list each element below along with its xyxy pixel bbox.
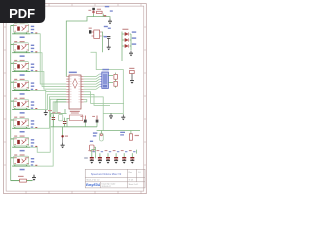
- ground: [107, 38, 111, 50]
- capacitor C4 electrolytic: [92, 116, 98, 127]
- capacitor C10 decoupling: [129, 150, 136, 164]
- wire : xtal caps: [51, 99, 67, 117]
- value text: [52, 112, 55, 113]
- diode D3: [125, 38, 128, 41]
- relay module K2: [11, 41, 38, 57]
- wire : rail bottom run: [11, 180, 20, 182]
- wire: [27, 180, 33, 182]
- capacitor C1: [52, 115, 55, 127]
- transistor Q1: [89, 28, 92, 34]
- ground: [129, 51, 133, 57]
- ground: [32, 175, 36, 181]
- resistor R13: [114, 80, 117, 88]
- pin text: [84, 121, 87, 122]
- wire: [67, 119, 70, 127]
- capacitor C2: [63, 118, 66, 127]
- wire: [102, 32, 104, 52]
- label: [120, 132, 125, 133]
- wire : gnd rail: [51, 126, 97, 128]
- svg-text:1.0: 1.0: [138, 172, 141, 174]
- svg-text:S: 1/1: S: 1/1: [129, 179, 134, 181]
- wire : stair gnd stub: [45, 92, 47, 110]
- label: [132, 31, 136, 32]
- PDF badge: [0, 0, 45, 23]
- value text: [122, 29, 128, 30]
- diode D2: [125, 32, 128, 35]
- capacitor C7 decoupling: [105, 150, 112, 164]
- wire : relay K6 output to U1: [30, 97, 66, 129]
- label J1: [102, 69, 109, 71]
- crystal Y1: [59, 115, 63, 121]
- capacitor C5 decoupling: [88, 150, 95, 164]
- label net 5V: [93, 132, 97, 133]
- wire : top net run: [66, 17, 103, 77]
- relay module K4: [11, 79, 38, 95]
- wire: [94, 147, 96, 158]
- wire : relay K1 output to U1: [30, 34, 66, 84]
- label: [132, 37, 136, 38]
- wire : relay K8 output to U1: [30, 102, 66, 166]
- relay module K6: [11, 117, 38, 133]
- relay module K8: [11, 154, 38, 170]
- capacitor C6 decoupling: [97, 150, 104, 164]
- LED D1: [88, 8, 95, 14]
- resistor R9: [18, 176, 27, 182]
- fuse F1: [100, 131, 104, 142]
- wire : relay K3 output to U1: [30, 72, 66, 90]
- pin text: [104, 15, 107, 16]
- resistor R10: [97, 9, 103, 14]
- svg-text:EasyEDA: EasyEDA: [86, 183, 101, 187]
- label: [105, 6, 109, 7]
- connector J1: [100, 72, 109, 88]
- relay module K5: [11, 98, 38, 114]
- switch S1: [129, 68, 134, 74]
- resistor R12: [114, 73, 117, 81]
- value text: [70, 111, 80, 112]
- wire: [62, 127, 64, 137]
- wire : 5V rail: [97, 130, 140, 132]
- title block: [85, 169, 145, 188]
- capacitor C3 electrolytic: [81, 116, 87, 127]
- wire : relay K7 output to U1: [30, 99, 66, 152]
- resistor R14: [129, 131, 139, 141]
- relay module K3: [11, 60, 38, 76]
- wire : U1 to J1: [84, 74, 100, 89]
- ground: [108, 19, 112, 25]
- label U1: [69, 72, 77, 74]
- wire : relay K4 output to U1: [30, 91, 66, 92]
- svg-text:Speed and Volume Mixer V2: Speed and Volume Mixer V2: [91, 173, 122, 176]
- ground: [121, 115, 125, 121]
- wire : lower nets: [84, 92, 124, 131]
- IC U1 microcontroller: [66, 75, 83, 109]
- connector ISP header outline: [70, 115, 83, 121]
- wire : right bus to ground: [91, 52, 124, 114]
- ground: [44, 110, 48, 116]
- resistor R11: [91, 30, 101, 38]
- capacitor C8 decoupling: [113, 150, 120, 164]
- capacitor C9 decoupling: [121, 150, 128, 164]
- label: [132, 43, 136, 44]
- capacitor C7: [104, 36, 111, 38]
- ground: [61, 143, 65, 149]
- wire : diode stack: [122, 32, 131, 62]
- wire : relay K5 output to U1: [30, 94, 66, 109]
- svg-text:PDF: PDF: [9, 6, 35, 21]
- relay module K7: [11, 136, 38, 152]
- wire : left vertical rail: [10, 26, 12, 181]
- node junction: [61, 135, 63, 137]
- relay module K1: [11, 22, 38, 38]
- label: [110, 10, 113, 11]
- label: [104, 26, 108, 27]
- regulator U2: [90, 141, 95, 151]
- ground: [130, 74, 134, 84]
- value text: [84, 157, 88, 158]
- ground: [109, 113, 113, 119]
- schematic sheet border frame: [4, 4, 147, 194]
- wire: [108, 76, 113, 83]
- wire: [92, 150, 137, 154]
- svg-text:Sheet 1 of 1: Sheet 1 of 1: [129, 183, 139, 186]
- wire: [94, 14, 111, 19]
- wire : relay K2 output to U1: [30, 53, 66, 87]
- wire : gnd tie: [103, 112, 123, 114]
- svg-text:Rev: Rev: [129, 172, 132, 174]
- svg-text:2019-05-17: 2019-05-17: [102, 186, 111, 188]
- diode D4: [125, 44, 128, 47]
- svg-text:Sheet_1 Ver 1.0: Sheet_1 Ver 1.0: [86, 178, 99, 181]
